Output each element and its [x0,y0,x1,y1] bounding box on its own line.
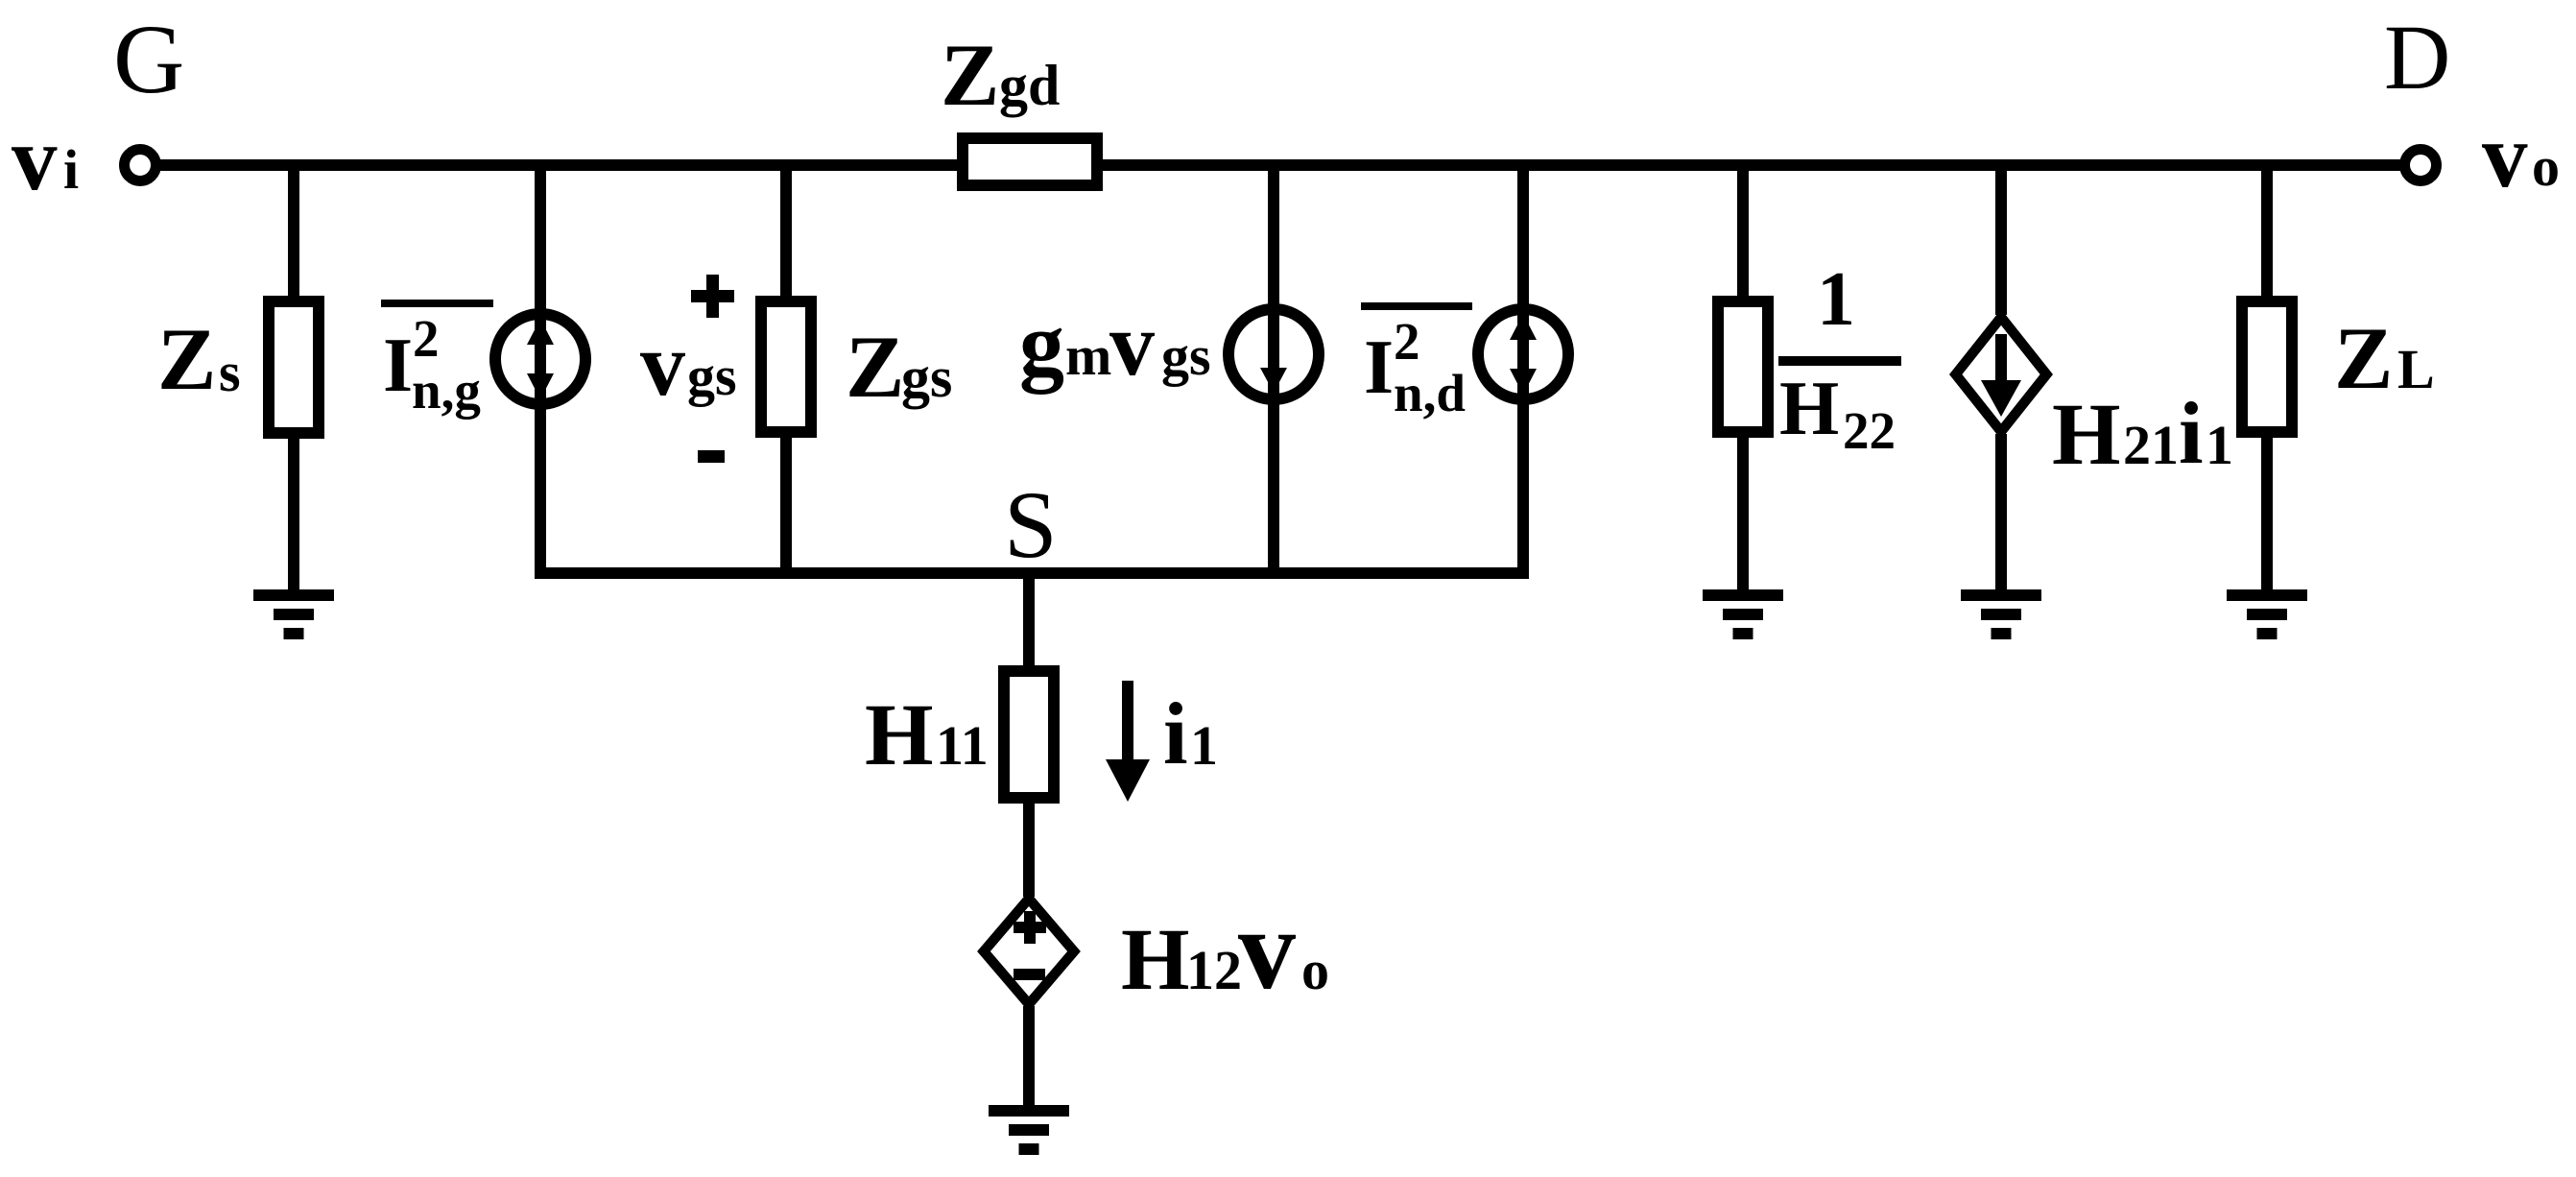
svg-text:1: 1 [1190,714,1218,777]
resistor Zgd body [963,138,1097,185]
wire gm branch [1268,165,1279,579]
wire S stub [1023,573,1035,671]
ground ZL [2227,589,2307,639]
wire Zgs branch top [780,165,792,296]
svg-text:H: H [1121,910,1190,1008]
ground Zs [253,589,334,639]
wire ZL branch bottom [2261,438,2273,592]
svg-text:22: 22 [1843,401,1896,460]
wire H12 to ground [1023,1006,1035,1111]
resistor ZL body [2242,301,2292,432]
label gmvgs [1019,295,1211,395]
wire Zgs branch bottom [780,438,792,579]
svg-text:L: L [2397,338,2435,400]
label plus vgs [691,275,734,318]
svg-text:o: o [1301,939,1329,1001]
svg-text:v: v [1238,885,1296,1013]
svg-text:D: D [2384,6,2450,108]
label H11 [865,685,989,783]
svg-text:H: H [865,685,934,783]
wire H11 to H12 [1023,798,1035,897]
svg-text:v: v [640,315,685,415]
resistor 1/H22 body [1718,301,1768,432]
svg-text:Z: Z [846,318,904,416]
svg-text:gs: gs [901,346,952,409]
label minus vgs [698,450,725,463]
ground H21 [1961,589,2041,639]
arrows In,d [1510,314,1537,395]
svg-text:12: 12 [1186,939,1242,1001]
svg-text:G: G [113,5,184,114]
svg-text:v: v [12,108,58,209]
wire Zs branch top [288,165,299,296]
wire In,d branch [1517,165,1529,579]
wire H21 branch bottom [1995,434,2007,592]
svg-text:I: I [1364,325,1394,410]
svg-text:i: i [2179,384,2204,482]
svg-text:Z: Z [941,26,999,124]
wire top bus right segment [1103,159,2401,171]
svg-text:1: 1 [1817,257,1855,342]
arrow gmvgs [1260,368,1287,393]
node D terminal [2405,150,2437,181]
svg-text:n,d: n,d [1394,364,1466,422]
svg-text:v: v [1109,295,1155,395]
svg-text:1: 1 [2206,414,2233,476]
label In,d [1361,302,1472,422]
svg-text:11: 11 [936,714,989,777]
svg-text:gd: gd [999,54,1060,117]
wire ZL branch top [2261,165,2273,296]
wire H21 branch top [1995,165,2007,315]
wire In,g branch [535,165,546,579]
label In,g [381,300,493,420]
label H21i1 [2052,384,2233,483]
wire top bus left segment [158,159,957,171]
ground 1/H22 [1703,589,1783,639]
dependent voltage source H12vo [984,899,1074,1004]
dependent current source H21i1 [1956,317,2047,431]
resistor H11 body [1004,671,1054,798]
svg-text:2: 2 [413,309,440,368]
current source gmvgs [1228,309,1319,399]
svg-text:S: S [1004,471,1058,578]
svg-text:H: H [1779,367,1839,451]
svg-text:o: o [2532,135,2560,198]
svg-text:i: i [63,138,79,201]
svg-text:v: v [2482,105,2528,206]
svg-text:Z: Z [2334,309,2393,407]
svg-text:g: g [1019,295,1064,395]
svg-text:21: 21 [2123,414,2179,476]
resistor Zs body [269,301,319,433]
label H12vo [1121,885,1329,1013]
svg-text:m: m [1065,324,1111,387]
resistor Zgs body [761,301,811,432]
svg-text:s: s [219,341,241,403]
svg-text:Z: Z [157,310,216,408]
svg-text:i: i [1163,685,1188,782]
svg-text:I: I [383,324,413,408]
label i1 [1163,685,1218,782]
noise current source In,g [495,314,585,404]
wire S bus [535,567,1529,579]
svg-text:2: 2 [1394,312,1420,371]
svg-text:gs: gs [687,345,737,407]
current arrow i1 [1106,681,1150,802]
wire 1/H22 branch top [1737,165,1749,296]
noise current source In,d [1478,309,1568,399]
svg-text:n,g: n,g [412,361,481,420]
svg-text:H: H [2052,385,2121,483]
svg-text:gs: gs [1161,324,1211,387]
node G terminal [125,150,156,181]
ground H12 [989,1105,1069,1155]
wire 1/H22 branch bottom [1737,438,1749,592]
label 1/H22 [1778,257,1901,460]
wire Zs branch bottom [288,439,299,592]
